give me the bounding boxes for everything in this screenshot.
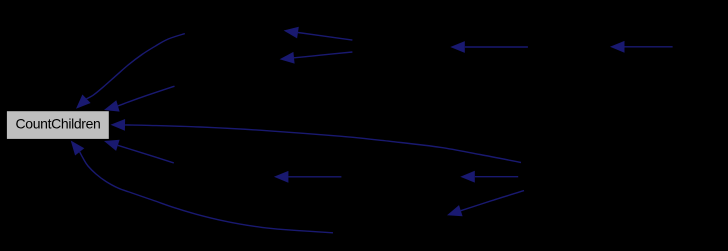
edge: caller node9 -> CountChildren (long shallow swoop) bbox=[111, 119, 522, 163]
edge: node7 -> node6 (lower middle horizontal) bbox=[274, 171, 342, 183]
edge: node4 -> invisible node (upper fan, top branch) bbox=[284, 27, 353, 40]
edge: caller node2 -> CountChildren (long top curve) bbox=[76, 34, 185, 109]
node CountChildren (current function, grey filled box) bbox=[7, 111, 109, 139]
edge: node10 -> node5 (top right horizontal) bbox=[610, 41, 673, 53]
edge: caller node8 -> CountChildren (long bottom curve) bbox=[71, 141, 333, 233]
edge: node9 -> node7 (lower right horizontal) bbox=[460, 171, 518, 183]
edge: node4 -> invisible node (upper fan, bottom branch) bbox=[280, 52, 353, 64]
edge: node9 -> node8 (lower right diagonal) bbox=[447, 191, 524, 217]
svg-text:CountChildren: CountChildren bbox=[16, 116, 101, 132]
edge: node5 -> node4 (top middle horizontal) bbox=[450, 41, 528, 53]
edge: caller node6 -> CountChildren (diagonal into bottom-right corner) bbox=[104, 140, 174, 163]
edge: caller node3 -> CountChildren (short diagonal into top-right) bbox=[104, 86, 175, 111]
